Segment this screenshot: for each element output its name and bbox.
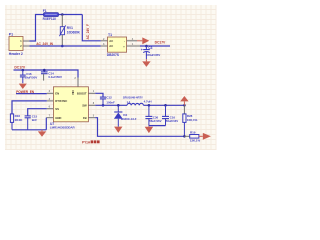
junction C12 bottom (102, 104, 105, 107)
svg-text:FB: FB (83, 116, 87, 120)
SS pin wire (47, 108, 54, 110)
capacitor C16 (20, 70, 37, 83)
svg-text:C12: C12 (106, 95, 112, 99)
svg-text:RT/SYNC: RT/SYNC (55, 99, 67, 103)
resistor R19 (184, 131, 200, 143)
svg-text:RXEF110: RXEF110 (43, 17, 57, 21)
power port up-arrow output (180, 96, 188, 105)
fuse F1 (43, 9, 59, 21)
svg-text:EN: EN (55, 91, 59, 95)
svg-text:10D680K: 10D680K (67, 31, 81, 35)
SW pin wire (88, 104, 95, 106)
svg-text:4.7uH: 4.7uH (144, 99, 152, 103)
wire DC17V rail to VIN (14, 70, 79, 78)
connector P1 (9, 32, 30, 55)
svg-text:VIN: VIN (71, 90, 75, 95)
resistor R16 (10, 114, 23, 130)
svg-text:+: + (141, 48, 143, 52)
power port right-arrow after R19 (199, 133, 211, 140)
junction at varistor top (61, 13, 64, 16)
svg-text:AC: AC (109, 44, 113, 48)
diode D4 (114, 105, 137, 126)
GND pin wire (46, 117, 53, 119)
svg-text:28.0K: 28.0K (15, 118, 24, 122)
junction C36 (148, 104, 151, 107)
BOOST wire + capacitor C12 (88, 90, 115, 105)
svg-text:220uF/35V: 220uF/35V (146, 53, 160, 57)
svg-text:T1: T1 (108, 33, 112, 37)
svg-text:SRU1048-4R7Y: SRU1048-4R7Y (123, 95, 143, 99)
svg-text:GND: GND (55, 116, 61, 120)
svg-text:10K,1%: 10K,1% (187, 118, 198, 122)
svg-text:56uF/16V: 56uF/16V (149, 119, 161, 123)
power port down-arrow under C3 (142, 59, 150, 67)
svg-text:RV1: RV1 (67, 26, 73, 30)
resistor R28 (183, 105, 198, 136)
junction C16 top (22, 69, 25, 72)
inductor L1 (123, 95, 152, 105)
svg-text:Header 2: Header 2 (9, 52, 23, 56)
FB pin wire (88, 117, 95, 119)
junction C16b (164, 104, 167, 107)
svg-text:SW: SW (82, 103, 87, 107)
svg-text:R19: R19 (190, 131, 196, 135)
svg-text:SS: SS (55, 107, 59, 111)
page background (0, 0, 240, 150)
ground arrow under diode (114, 127, 122, 133)
wire C16b bottom to C36 bottom (149, 125, 166, 127)
svg-text:BOOST: BOOST (77, 91, 87, 95)
ground arrow left (38, 130, 46, 137)
svg-text:POWER_EN: POWER_EN (16, 90, 35, 94)
capacitor C15 (25, 114, 38, 129)
output wire (143, 104, 184, 106)
IC U7 (50, 87, 89, 130)
svg-text:DC17V: DC17V (155, 41, 166, 45)
varistor RV1 (59, 15, 80, 47)
capacitor C36 (145, 105, 161, 125)
svg-text:PY1A: PY1A (82, 140, 91, 144)
junction C14 top (43, 69, 46, 72)
svg-text:-: - (124, 39, 125, 43)
svg-text:9nF: 9nF (32, 118, 37, 122)
junction FB/divider (183, 135, 186, 138)
bridge rectifier T1 (101, 33, 140, 57)
svg-text:100nF: 100nF (106, 100, 115, 104)
svg-text:56uF/16V: 56uF/16V (166, 119, 178, 123)
EN pin + POWER_EN wire (47, 92, 54, 94)
wire fuse to riser (59, 14, 83, 16)
wire DC17V (top) (140, 45, 170, 47)
junction varistor bottom (61, 45, 64, 48)
svg-text:B340C-13-F: B340C-13-F (121, 117, 137, 121)
schematic sheet with grid (5, 5, 217, 150)
svg-text:0.1uF/50V: 0.1uF/50V (48, 75, 62, 79)
RT/SYNC pin wire (47, 100, 54, 102)
svg-text:AC_24V_IN: AC_24V_IN (36, 42, 53, 46)
svg-text:DB207S: DB207S (107, 53, 120, 57)
svg-text:C3: C3 (148, 46, 152, 50)
wire P1 pin1 to fuse row (30, 15, 44, 42)
wire riser to bridge top pin (82, 15, 101, 41)
VIN top pin (77, 78, 79, 87)
capacitor C16b (162, 105, 178, 125)
power port right-arrow on bridge minus (137, 37, 149, 44)
junction diode top (117, 104, 120, 107)
svg-text:F1: F1 (43, 9, 47, 13)
power port down-arrow under C16 (19, 84, 27, 89)
svg-text:10uF/50V: 10uF/50V (24, 76, 37, 80)
svg-text:LMR14030SDDAR: LMR14030SDDAR (50, 126, 76, 130)
junction C3 top (145, 45, 148, 48)
svg-text:AC: AC (109, 39, 113, 43)
svg-text:13K,1%: 13K,1% (190, 138, 201, 142)
ground rail left (12, 129, 46, 131)
capacitor C14 (41, 70, 62, 81)
svg-text:DC17V: DC17V (14, 65, 25, 69)
red annotation text PY1A (82, 140, 100, 144)
ground arrow under C36 (145, 126, 153, 134)
wire AC_24V_IN (30, 45, 101, 47)
junction divider (183, 104, 186, 107)
capacitor C3 (141, 46, 160, 59)
svg-text:AC_24V_F: AC_24V_F (86, 24, 90, 39)
svg-text:P1: P1 (9, 32, 13, 36)
svg-text:L1: L1 (127, 100, 131, 104)
